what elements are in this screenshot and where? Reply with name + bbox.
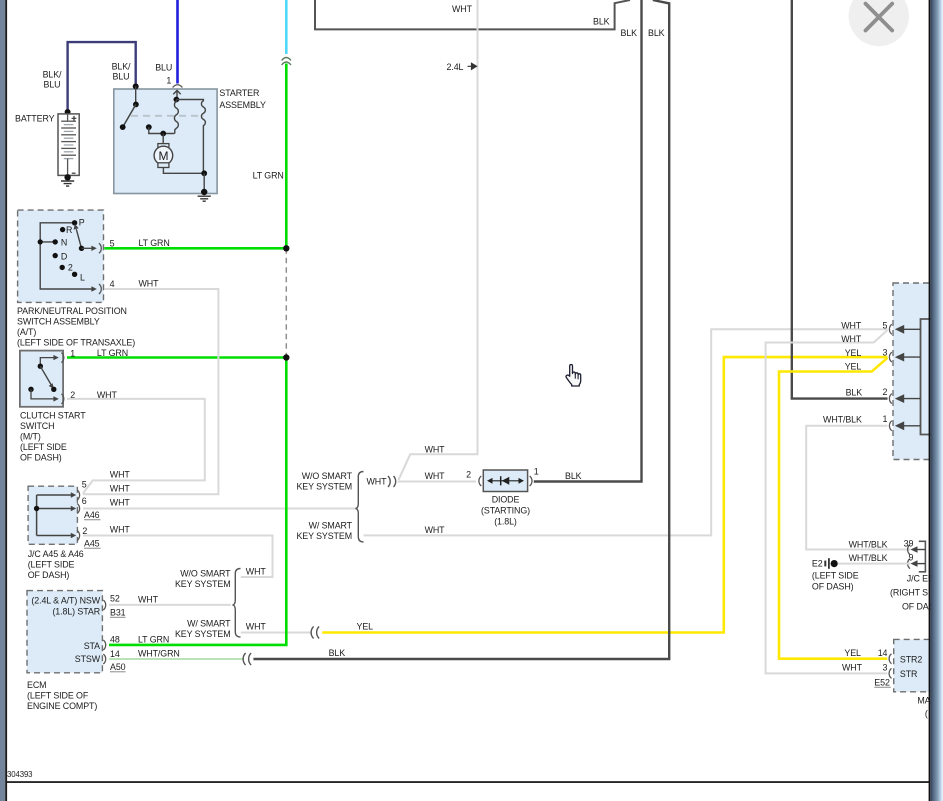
svg-text:LT GRN: LT GRN (253, 170, 284, 180)
svg-text:J/C A45 & A46: J/C A45 & A46 (28, 549, 84, 559)
ECM NSW wire (109, 604, 231, 606)
wire WHT clutch pin2 to J/C pin5 (row A) (67, 399, 205, 494)
svg-text:D: D (61, 251, 67, 261)
svg-text:1: 1 (883, 414, 888, 424)
svg-text:2: 2 (466, 470, 471, 480)
svg-text:WHT: WHT (841, 334, 862, 344)
svg-text:WHT: WHT (425, 471, 446, 481)
svg-text:5: 5 (110, 238, 115, 248)
svg-text:STR2: STR2 (900, 654, 922, 664)
wire WHT diagonal up to ignition switch (399, 0, 478, 480)
svg-text:4: 4 (110, 279, 115, 289)
svg-text:2: 2 (82, 526, 87, 536)
svg-text:BLK: BLK (648, 28, 665, 38)
svg-text:1: 1 (534, 467, 539, 477)
svg-text:WHT: WHT (110, 484, 131, 494)
starter assembly box (114, 89, 217, 194)
svg-text:2.4L: 2.4L (447, 62, 464, 72)
battery minus sign (72, 172, 76, 174)
wire LT GRN vertical upper (285, 64, 288, 249)
svg-text:BLK: BLK (621, 28, 638, 38)
wire WHT J/C pin6 to brace (row C) (83, 508, 356, 510)
viewer right gradient edge (930, 0, 943, 801)
clutch arm with arrowhead (40, 366, 51, 385)
svg-text:ECM: ECM (27, 680, 46, 690)
svg-text:BLU: BLU (155, 63, 172, 73)
right connector pin receptacles ( (889, 324, 891, 431)
mechanical link dashed (131, 115, 203, 117)
battery plus sign (72, 116, 77, 121)
svg-text:WHT/GRN: WHT/GRN (138, 648, 180, 658)
J/C internal bus (37, 495, 72, 536)
wire BLK ignition to diode pin1 (534, 0, 642, 482)
wire BLK to pin2 (792, 0, 888, 399)
svg-text:DIODE: DIODE (492, 495, 520, 505)
wire WHT to diode pin2 (398, 481, 477, 483)
svg-text:W/ SMART: W/ SMART (309, 521, 353, 531)
clutch internal top (40, 358, 53, 367)
svg-text:2: 2 (883, 387, 888, 397)
svg-text:(M/T): (M/T) (20, 432, 41, 442)
inline connector )) (388, 476, 396, 487)
svg-text:W/O SMART: W/O SMART (180, 569, 231, 579)
svg-text:WHT: WHT (246, 566, 267, 576)
J/C pin receptacles (77, 490, 79, 541)
inline connector (( yellow (311, 627, 319, 639)
STR2 pin receptacles (889, 654, 891, 679)
J/C A45 & A46 box (28, 486, 77, 544)
starter switch pivot (135, 86, 137, 104)
svg-text:(LEFT SIDE: (LEFT SIDE (28, 560, 75, 570)
svg-text:(1.8L): (1.8L) (494, 517, 517, 527)
P/N switch arm with arrow to P (76, 229, 81, 248)
wire WHT/BLK E2 to J/C E5 pin9 (838, 563, 911, 565)
ECM box (27, 591, 102, 673)
svg-text:A50: A50 (110, 662, 126, 672)
svg-text:M: M (158, 149, 168, 163)
viewer left background strip (0, 0, 5, 801)
right connector dashed box (893, 283, 943, 460)
svg-text:KEY SYSTEM: KEY SYSTEM (296, 482, 352, 492)
svg-text:P: P (79, 217, 85, 227)
svg-text:ASSEMBLY: ASSEMBLY (219, 100, 266, 110)
svg-text:3: 3 (883, 347, 888, 357)
starter switch arm (123, 104, 136, 127)
svg-text:6: 6 (82, 496, 87, 506)
svg-text:YEL: YEL (844, 648, 861, 658)
svg-text:CLUTCH START: CLUTCH START (20, 411, 86, 421)
svg-text:STARTER: STARTER (219, 88, 259, 98)
battery plates (67, 114, 69, 121)
svg-text:B31: B31 (110, 608, 126, 618)
STR2 box (894, 639, 943, 691)
svg-text:1: 1 (70, 349, 75, 359)
diode pin receptacles (479, 476, 481, 486)
svg-text:304393: 304393 (7, 770, 32, 779)
svg-text:1: 1 (166, 76, 171, 86)
svg-text:BLK: BLK (593, 17, 610, 27)
svg-text:WHT: WHT (110, 498, 131, 508)
svg-text:BLU: BLU (44, 80, 61, 90)
svg-text:L: L (80, 273, 85, 283)
wire WHT/GRN (109, 658, 244, 660)
wire WHT/BLK pin1 to J/C E5 (806, 426, 910, 550)
svg-text:STA: STA (84, 641, 100, 651)
svg-text:WHT: WHT (139, 279, 160, 289)
svg-text:WHT/BLK: WHT/BLK (849, 553, 888, 563)
wire LT GRN clutch pin1 (67, 356, 286, 359)
solenoid coil 2 (176, 100, 205, 174)
svg-text:LT GRN: LT GRN (138, 635, 169, 645)
svg-text:WHT: WHT (138, 595, 159, 605)
svg-text:39: 39 (904, 539, 914, 549)
svg-text:BLK/: BLK/ (112, 62, 131, 72)
starter pin1 arrow up (173, 90, 180, 99)
svg-text:BLK: BLK (565, 471, 582, 481)
hand cursor (566, 365, 581, 387)
svg-text:YEL: YEL (845, 348, 862, 358)
svg-text:WHT: WHT (110, 469, 131, 479)
motor ground run (163, 168, 204, 174)
svg-text:3: 3 (883, 662, 888, 672)
svg-text:48: 48 (110, 635, 120, 645)
wire WHT w/ smart key to conn pin5 (364, 329, 888, 535)
junction node (283, 354, 289, 360)
wire BLU (176, 0, 179, 84)
starter switch entry dot (133, 83, 139, 89)
svg-text:KEY SYSTEM: KEY SYSTEM (296, 531, 352, 541)
P/N internal bus (40, 223, 92, 289)
svg-text:KEY SYSTEM: KEY SYSTEM (175, 629, 231, 639)
svg-text:(LEFT SIDE: (LEFT SIDE (20, 442, 67, 452)
svg-text:WHT: WHT (452, 4, 473, 14)
page left border (5, 0, 7, 801)
svg-text:YEL: YEL (357, 622, 374, 632)
svg-text:SWITCH: SWITCH (20, 421, 54, 431)
right connector pin arrows to inner box (897, 326, 921, 429)
starter ground (201, 189, 207, 195)
svg-text:14: 14 (878, 648, 888, 658)
svg-text:W/ SMART: W/ SMART (187, 619, 231, 629)
battery ground (64, 174, 70, 180)
motor M (162, 134, 164, 144)
wire BLK ignition to inline conn (ECM STSW) (253, 0, 669, 659)
svg-text:N: N (61, 238, 67, 248)
solenoid coil 1 (174, 97, 180, 103)
svg-text:W/O SMART: W/O SMART (302, 471, 353, 481)
svg-text:BLK: BLK (329, 648, 346, 658)
P/N pin 5 arrow (82, 247, 92, 249)
wire WHT P/N pin4 to J/C pin5 (row B) (83, 289, 218, 494)
P/N pin 4 arrow (91, 286, 96, 291)
page right border (929, 0, 931, 801)
page bottom border (7, 781, 929, 783)
svg-text:14: 14 (110, 649, 120, 659)
svg-text:A45: A45 (84, 539, 100, 549)
clutch pin receptacles (61, 353, 63, 363)
inline connector (( black (243, 653, 251, 665)
close button X (849, 0, 909, 46)
svg-text:SWITCH ASSEMBLY: SWITCH ASSEMBLY (17, 317, 100, 327)
wire YEL row2 pin3 to STR2 pin14 (779, 358, 888, 659)
svg-text:BLU: BLU (113, 72, 130, 82)
svg-text:WHT: WHT (425, 525, 446, 535)
brace 2 (at ECM NSW) (232, 569, 240, 638)
svg-text:(2.4L & A/T) NSW: (2.4L & A/T) NSW (31, 595, 100, 605)
starter fixed contact (146, 124, 152, 130)
motor feed junction (160, 131, 166, 137)
svg-text:(LEFT SIDE OF TRANSAXLE): (LEFT SIDE OF TRANSAXLE) (17, 338, 135, 348)
ECM pin receptacles (103, 600, 105, 664)
svg-text:2: 2 (68, 263, 73, 273)
svg-text:STSW: STSW (75, 654, 101, 664)
wire WHT row2 pin5 to STR2 pin3 (766, 330, 888, 673)
svg-text:(: ( (925, 708, 928, 718)
wire overlap break symbol (282, 58, 291, 66)
svg-text:9: 9 (908, 553, 913, 563)
svg-text:(LEFT SIDE: (LEFT SIDE (812, 570, 859, 580)
svg-text:WHT: WHT (841, 320, 862, 330)
wire cyan top (285, 0, 288, 54)
svg-text:(1.8L) STAR: (1.8L) STAR (52, 607, 100, 617)
wire WHT J/C pin2 to brace2 top (83, 536, 273, 578)
P/N position contacts (72, 220, 77, 225)
svg-text:LT GRN: LT GRN (139, 238, 170, 248)
J/C E5 pin 9 arrow (916, 563, 925, 565)
svg-text:WHT: WHT (842, 662, 863, 672)
dashed alt link A/T-M/T (285, 248, 287, 357)
svg-text:BLK/: BLK/ (43, 70, 62, 80)
P/N pin 5 receptacle (99, 243, 101, 253)
clutch start switch box (20, 351, 63, 407)
ignition switch box outline (off screen) (315, 0, 630, 29)
svg-text:5: 5 (883, 320, 888, 330)
svg-text:OF DASH): OF DASH) (20, 453, 62, 463)
svg-text:WHT: WHT (367, 477, 388, 487)
svg-text:BLK: BLK (846, 388, 863, 398)
svg-text:52: 52 (110, 594, 120, 604)
wire LT GRN P/N pin5 (104, 247, 286, 250)
right component inner box (921, 319, 943, 435)
svg-text:STR: STR (900, 669, 917, 679)
diode symbol with arrows (489, 480, 523, 482)
battery (65, 109, 71, 115)
svg-text:LT GRN: LT GRN (97, 348, 128, 358)
svg-text:E52: E52 (874, 678, 890, 688)
svg-text:OF DASH): OF DASH) (812, 582, 854, 592)
svg-text:OF DASH): OF DASH) (28, 570, 70, 580)
wire YEL to conn pin3 (322, 357, 887, 632)
svg-text:WHT/BLK: WHT/BLK (823, 415, 862, 425)
svg-text:ENGINE COMPT): ENGINE COMPT) (27, 701, 97, 711)
J/C E5 pin 39 arrow (916, 549, 925, 551)
J/C E5 bracket (919, 541, 926, 572)
svg-text:WHT: WHT (425, 444, 446, 454)
svg-text:(A/T): (A/T) (17, 327, 36, 337)
diode (starting) box (483, 470, 527, 492)
wire LT GRN vertical lower to ECM STA (109, 358, 286, 645)
svg-text:PARK/NEUTRAL POSITION: PARK/NEUTRAL POSITION (17, 306, 127, 316)
svg-text:E2: E2 (812, 558, 823, 568)
brace 1 (smart key split at diode) (355, 472, 363, 543)
wire BLK/BLU battery to starter (68, 42, 136, 111)
junction node (283, 245, 289, 251)
clutch internal bottom (28, 387, 33, 392)
svg-text:(LEFT SIDE OF: (LEFT SIDE OF (27, 691, 89, 701)
J/C pin arrows (71, 492, 76, 538)
wire brace2 bottom WHT (241, 632, 312, 634)
svg-text:(STARTING): (STARTING) (481, 506, 530, 516)
svg-text:WHT/BLK: WHT/BLK (849, 540, 888, 550)
svg-text:R: R (66, 225, 72, 235)
svg-text:YEL: YEL (845, 361, 862, 371)
svg-text:5: 5 (82, 480, 87, 490)
svg-text:WHT: WHT (110, 525, 131, 535)
svg-text:KEY SYSTEM: KEY SYSTEM (175, 579, 231, 589)
svg-text:BATTERY: BATTERY (15, 114, 55, 124)
svg-text:WHT: WHT (246, 622, 267, 632)
svg-text:A46: A46 (84, 510, 100, 520)
park/neutral position switch box (18, 210, 104, 302)
connector pin 1 starter (arc) (173, 85, 183, 88)
